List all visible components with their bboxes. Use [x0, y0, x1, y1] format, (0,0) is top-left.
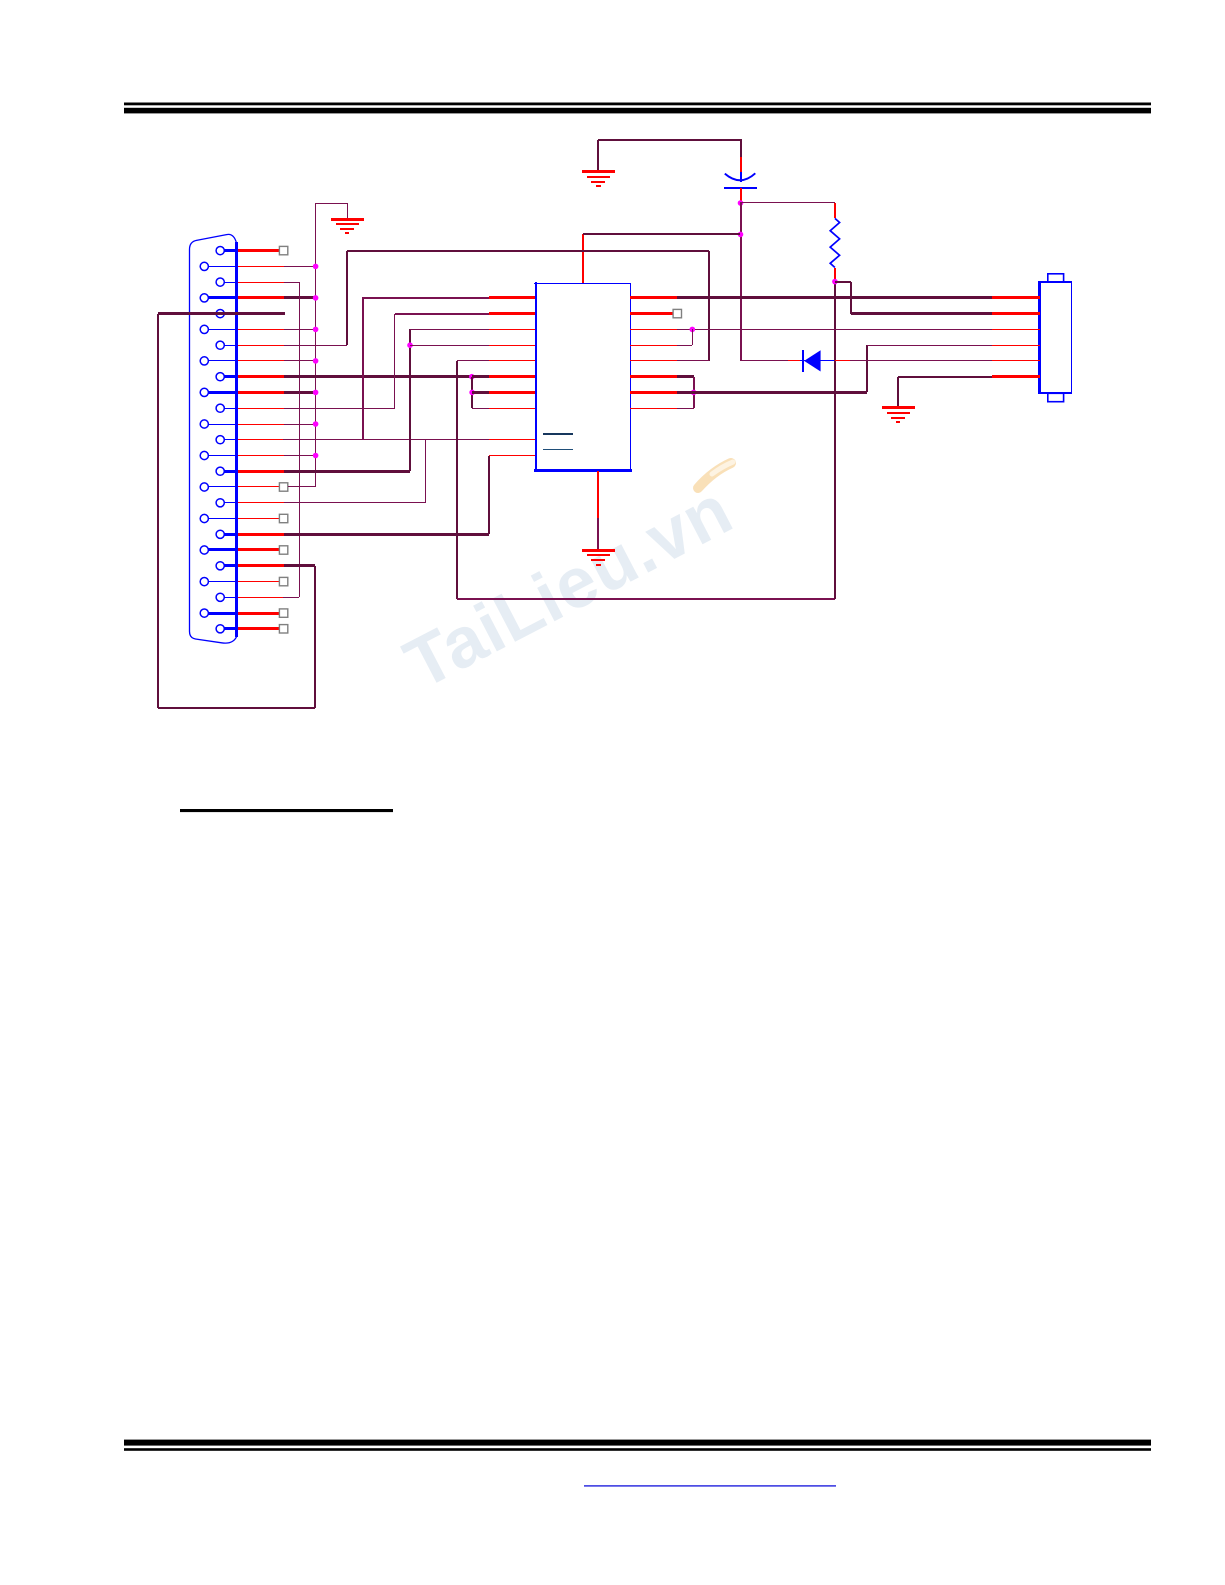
wire bottom loop left vertical x=456.6 [456, 361, 458, 599]
wire ground stem G1 [347, 203, 349, 219]
junction dot ground bus at J1 pin12 row [313, 421, 319, 427]
op IC U1 body [534, 282, 632, 471]
wire G4 stem vertical x=898.2 [897, 377, 899, 408]
ground G3 (below U1) [582, 551, 615, 566]
wire branch vertical x=362.5 rows 4-13 [362, 298, 364, 440]
wire ground bus: J1 pin14 stub to bus [284, 455, 316, 457]
junction dot C1 bottom x=740.5 y=203.0 [738, 200, 744, 206]
junction dot ground bus at J1 pin14 row [313, 453, 319, 459]
wire tie vertical x=692.3 rows 6-7 [692, 329, 694, 345]
wire corner to U1 left pin8 [457, 360, 489, 362]
wire branch vertical x=425.5 rows 13-17 [425, 440, 427, 503]
wire J1 pin5 row horizontal (crosses connector) [158, 312, 285, 315]
wire corner to U1 left pin11 [472, 408, 489, 410]
wire pin7 net right vertical x=709.0 [708, 251, 710, 361]
U1 internal mark line 1 [543, 433, 573, 435]
connector J2 red pin stubs [992, 298, 1040, 377]
wire corner to U1 left pin5 [395, 313, 489, 315]
wire capacitor C1 top lead red [740, 157, 742, 172]
wire corner to J1 pin21 [284, 564, 315, 567]
wire ground bus: J1 pin12 stub to bus [284, 424, 316, 426]
wire loop bottom horizontal y=708.3 [158, 707, 315, 709]
resistor R1 (blue zigzag) [830, 218, 839, 267]
wire pin7 net into U1 right pin8 [677, 360, 709, 362]
wire J1 pin19 to corner [284, 533, 489, 536]
watermark TaiLieu.vn text [392, 469, 745, 705]
U1 right red pin stubs [630, 298, 677, 409]
ground G2 (top middle) [582, 172, 615, 187]
wire capacitor C1 top lead maroon [740, 139, 742, 157]
wire vertical x=394.8 rows 5-11 [394, 314, 396, 408]
U1 internal mark line 2 [543, 449, 573, 451]
wire ground bus: J1 pin8 stub to bus [284, 360, 316, 362]
wire corner to J1 pin23 [283, 597, 299, 599]
wire U1 top pin run y=234.4 [583, 233, 740, 235]
wire C1 bottom lead red [740, 188, 742, 203]
junction dot ground bus at J1 pin8 row [313, 358, 319, 364]
wire J1 pin17 to corner [284, 502, 426, 504]
wire junction to U1 left pin9 [472, 375, 489, 378]
wire J1 pin15 to corner [284, 470, 410, 473]
wire diode cathode lead red [835, 360, 850, 362]
wire U1 bottom pin to ground [597, 518, 599, 550]
resistor R1 top lead red [834, 203, 836, 218]
wire tie vertical x=693.6 rows 9-11 [693, 377, 695, 408]
wire corner to U1 left pin4 [362, 297, 489, 299]
junction dot ground bus at J1 pin6 row [313, 327, 319, 333]
no-connect square on U1 right pin2 [673, 309, 681, 317]
junction dot row10 x=472.1 [469, 390, 475, 396]
junction dot x=692.3 y=329.4 [690, 327, 696, 333]
wire corner to U1 right pin8 [677, 408, 694, 410]
wire y=313.6 to J2 pin2 [851, 312, 992, 315]
wire junction to U1 left pin7 [410, 345, 489, 347]
wire U1 right pin7 run y=392.4 [677, 391, 867, 394]
wire bottom loop horizontal y=598.6 [457, 598, 835, 600]
wire bottom loop right vertical x=834.9 (to R1 bottom junction) [834, 282, 836, 599]
wire pin7 net left vertical x=346.9 [346, 251, 348, 345]
junction dot x=693.6 y=392.4 [691, 390, 697, 396]
wire loop right vertical x=315.2 [314, 566, 316, 708]
wire vertical x=851.0 to J2 pin2 row [850, 282, 852, 314]
ground G4 (right) [882, 408, 915, 423]
ground G1 (top left) [331, 220, 364, 234]
footer hyperlink underline (blue) [584, 1485, 836, 1486]
junction dot R1 bottom x=834.9 y=281.6 [832, 279, 838, 285]
wire R1 junction right y=281.6 [835, 281, 851, 283]
U1 bottom pin stub (red) [597, 471, 599, 518]
wire corner to U1 left pin6 [410, 329, 489, 331]
wire vertical x=410.0 rows 6-15 [409, 329, 411, 471]
no-connect squares on J1 pins 1,16,18,20,22,24,25 [279, 246, 287, 633]
resistor R1 bottom lead red [834, 268, 836, 282]
wire ground bus: J1 pin16 square to bus [288, 486, 316, 488]
U1 top pin stub (red) [582, 234, 584, 283]
wire ground bus top run to ground stem [315, 203, 347, 205]
junction dot x=740.5 y=234.4 [738, 232, 744, 238]
wire ground bus: J1 pin10 stub to bus [284, 391, 316, 394]
page top double rule (thin over thick) [124, 103, 1151, 114]
wire loop left vertical x=157.8 [157, 314, 159, 708]
wire G2 top horizontal y=139.8 [598, 139, 740, 141]
connector J1 red pin stubs [238, 251, 284, 629]
heading underline (black) [180, 809, 393, 812]
junction dot row9 x=471.8 [469, 374, 475, 380]
connector J1 mating bar [235, 242, 238, 637]
connector J1 pin circles [200, 247, 224, 633]
wire ground bus vertical x=315.6 [315, 203, 317, 487]
wire cap net corner to diode (maroon) [740, 360, 788, 362]
U1 left red pin stubs [489, 298, 535, 456]
wire diode anode lead red [788, 360, 800, 362]
wire J1 pin3 to corner [284, 282, 299, 284]
wire junction to resistor R1 top y=203.0 [740, 202, 835, 204]
wire pin7 net top horizontal y=250.7 [347, 250, 709, 252]
junction dot row7 x=410.0 [407, 342, 413, 348]
wire ground bus: J1 pin2 stub to bus [284, 266, 316, 268]
connector J1 DB25 body outline [190, 234, 237, 643]
junction dot ground bus at J1 pin4 row [313, 295, 319, 301]
page bottom double rule (thick over thin) [124, 1440, 1151, 1451]
junction dot ground bus at J1 pin2 row [313, 264, 319, 270]
wire cap net vertical x=740.5 down to diode row [740, 203, 742, 361]
wire ground bus: J1 pin4 stub to bus [284, 296, 316, 299]
wire pin7 net over crossing [574, 250, 593, 252]
wire J1 pin9 to junction [284, 375, 472, 378]
junction dot ground bus at J1 pin10 row [313, 390, 319, 396]
wire vertical x=866.6 rows 7-10 [866, 345, 868, 392]
wire y=345.2 to J2 pin4 [867, 345, 992, 347]
capacitor C1 flat plate [724, 187, 757, 189]
wire J2 pin6 to ground corner (thick) [898, 376, 992, 378]
wire U1 right pin3 to J2 pin3 [677, 329, 992, 331]
connector J2 body [1039, 274, 1072, 402]
wire tie vertical x=472.1 rows 9-11 [471, 377, 473, 408]
wire J1 pin11 to corner [284, 408, 395, 410]
wire U1 right pin1 to J2 pin1 (thick) [677, 296, 992, 299]
wire junction to U1 left pin10 [472, 391, 489, 394]
wire corner to U1 right pin4 [677, 345, 692, 347]
wire U1 right pin6 to corner [677, 375, 694, 378]
capacitor C1 curved plate and stem [725, 172, 756, 182]
wire diode row to J2 pin5 [850, 360, 992, 362]
connector J1 pin leads [208, 251, 236, 629]
diode D1 (blue, cathode bar left) [800, 350, 834, 372]
wire J1 pin7 to corner [284, 345, 347, 347]
wire G2 stem [597, 140, 599, 172]
wire ground bus: J1 pin6 stub to bus [284, 329, 316, 331]
wire vertical pin3-pin23 x=299.3 [299, 282, 301, 597]
wire vertical x=488.9 rows 14-19 [488, 456, 490, 534]
wire J1 pin13 to U1 left pin13 [283, 439, 489, 441]
